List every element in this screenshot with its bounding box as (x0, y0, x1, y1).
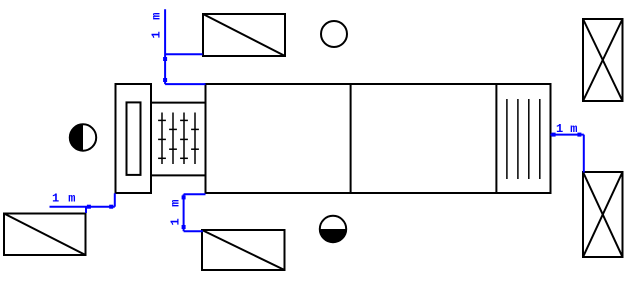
svg-text:1 m: 1 m (556, 122, 578, 136)
coil ticks fin1 (158, 119, 166, 121)
svg-text:1 m: 1 m (169, 200, 183, 226)
circle top (duct outlet) (321, 21, 347, 47)
X-box lower right (louvre) (583, 172, 623, 257)
exhaust grille box bottom-mid (rect with diagonal) (202, 230, 285, 270)
half-filled circle left (duct symbol) (70, 124, 96, 150)
coil section bottom line (151, 174, 206, 176)
filter section divider (495, 84, 497, 193)
coil ticks fin3 (180, 119, 188, 121)
dimension bottom-left: end dots (87, 205, 91, 209)
dimension right: leader lines (550, 135, 583, 173)
half-filled circle bottom (duct symbol) (320, 216, 346, 242)
casing divider (350, 84, 352, 193)
coil ticks fin4 (191, 128, 199, 130)
coil ticks fin2 (169, 128, 177, 130)
svg-text:1 m: 1 m (150, 13, 164, 39)
X-box upper right (louvre) (583, 19, 623, 101)
grille box bottom-left (rect with diagonal) (4, 214, 86, 256)
dimension bottom-mid: end dots (182, 195, 186, 199)
dimension bottom-mid: leader lines (184, 194, 206, 231)
damper blade inner rect (127, 102, 141, 174)
damper box (unit left section) (116, 84, 152, 193)
dimension bottom-left: leader lines (50, 193, 115, 213)
dimension top: leader lines (165, 9, 205, 84)
supply grille box top (rect with diagonal) (203, 14, 285, 56)
dimension right: end dots (552, 133, 556, 137)
filter lines (507, 99, 540, 179)
dimension top: end dots (163, 57, 167, 61)
heating coil fins (158, 113, 199, 165)
coil section top line (151, 102, 206, 104)
main unit casing (206, 84, 551, 193)
svg-text:1 m: 1 m (52, 192, 76, 206)
